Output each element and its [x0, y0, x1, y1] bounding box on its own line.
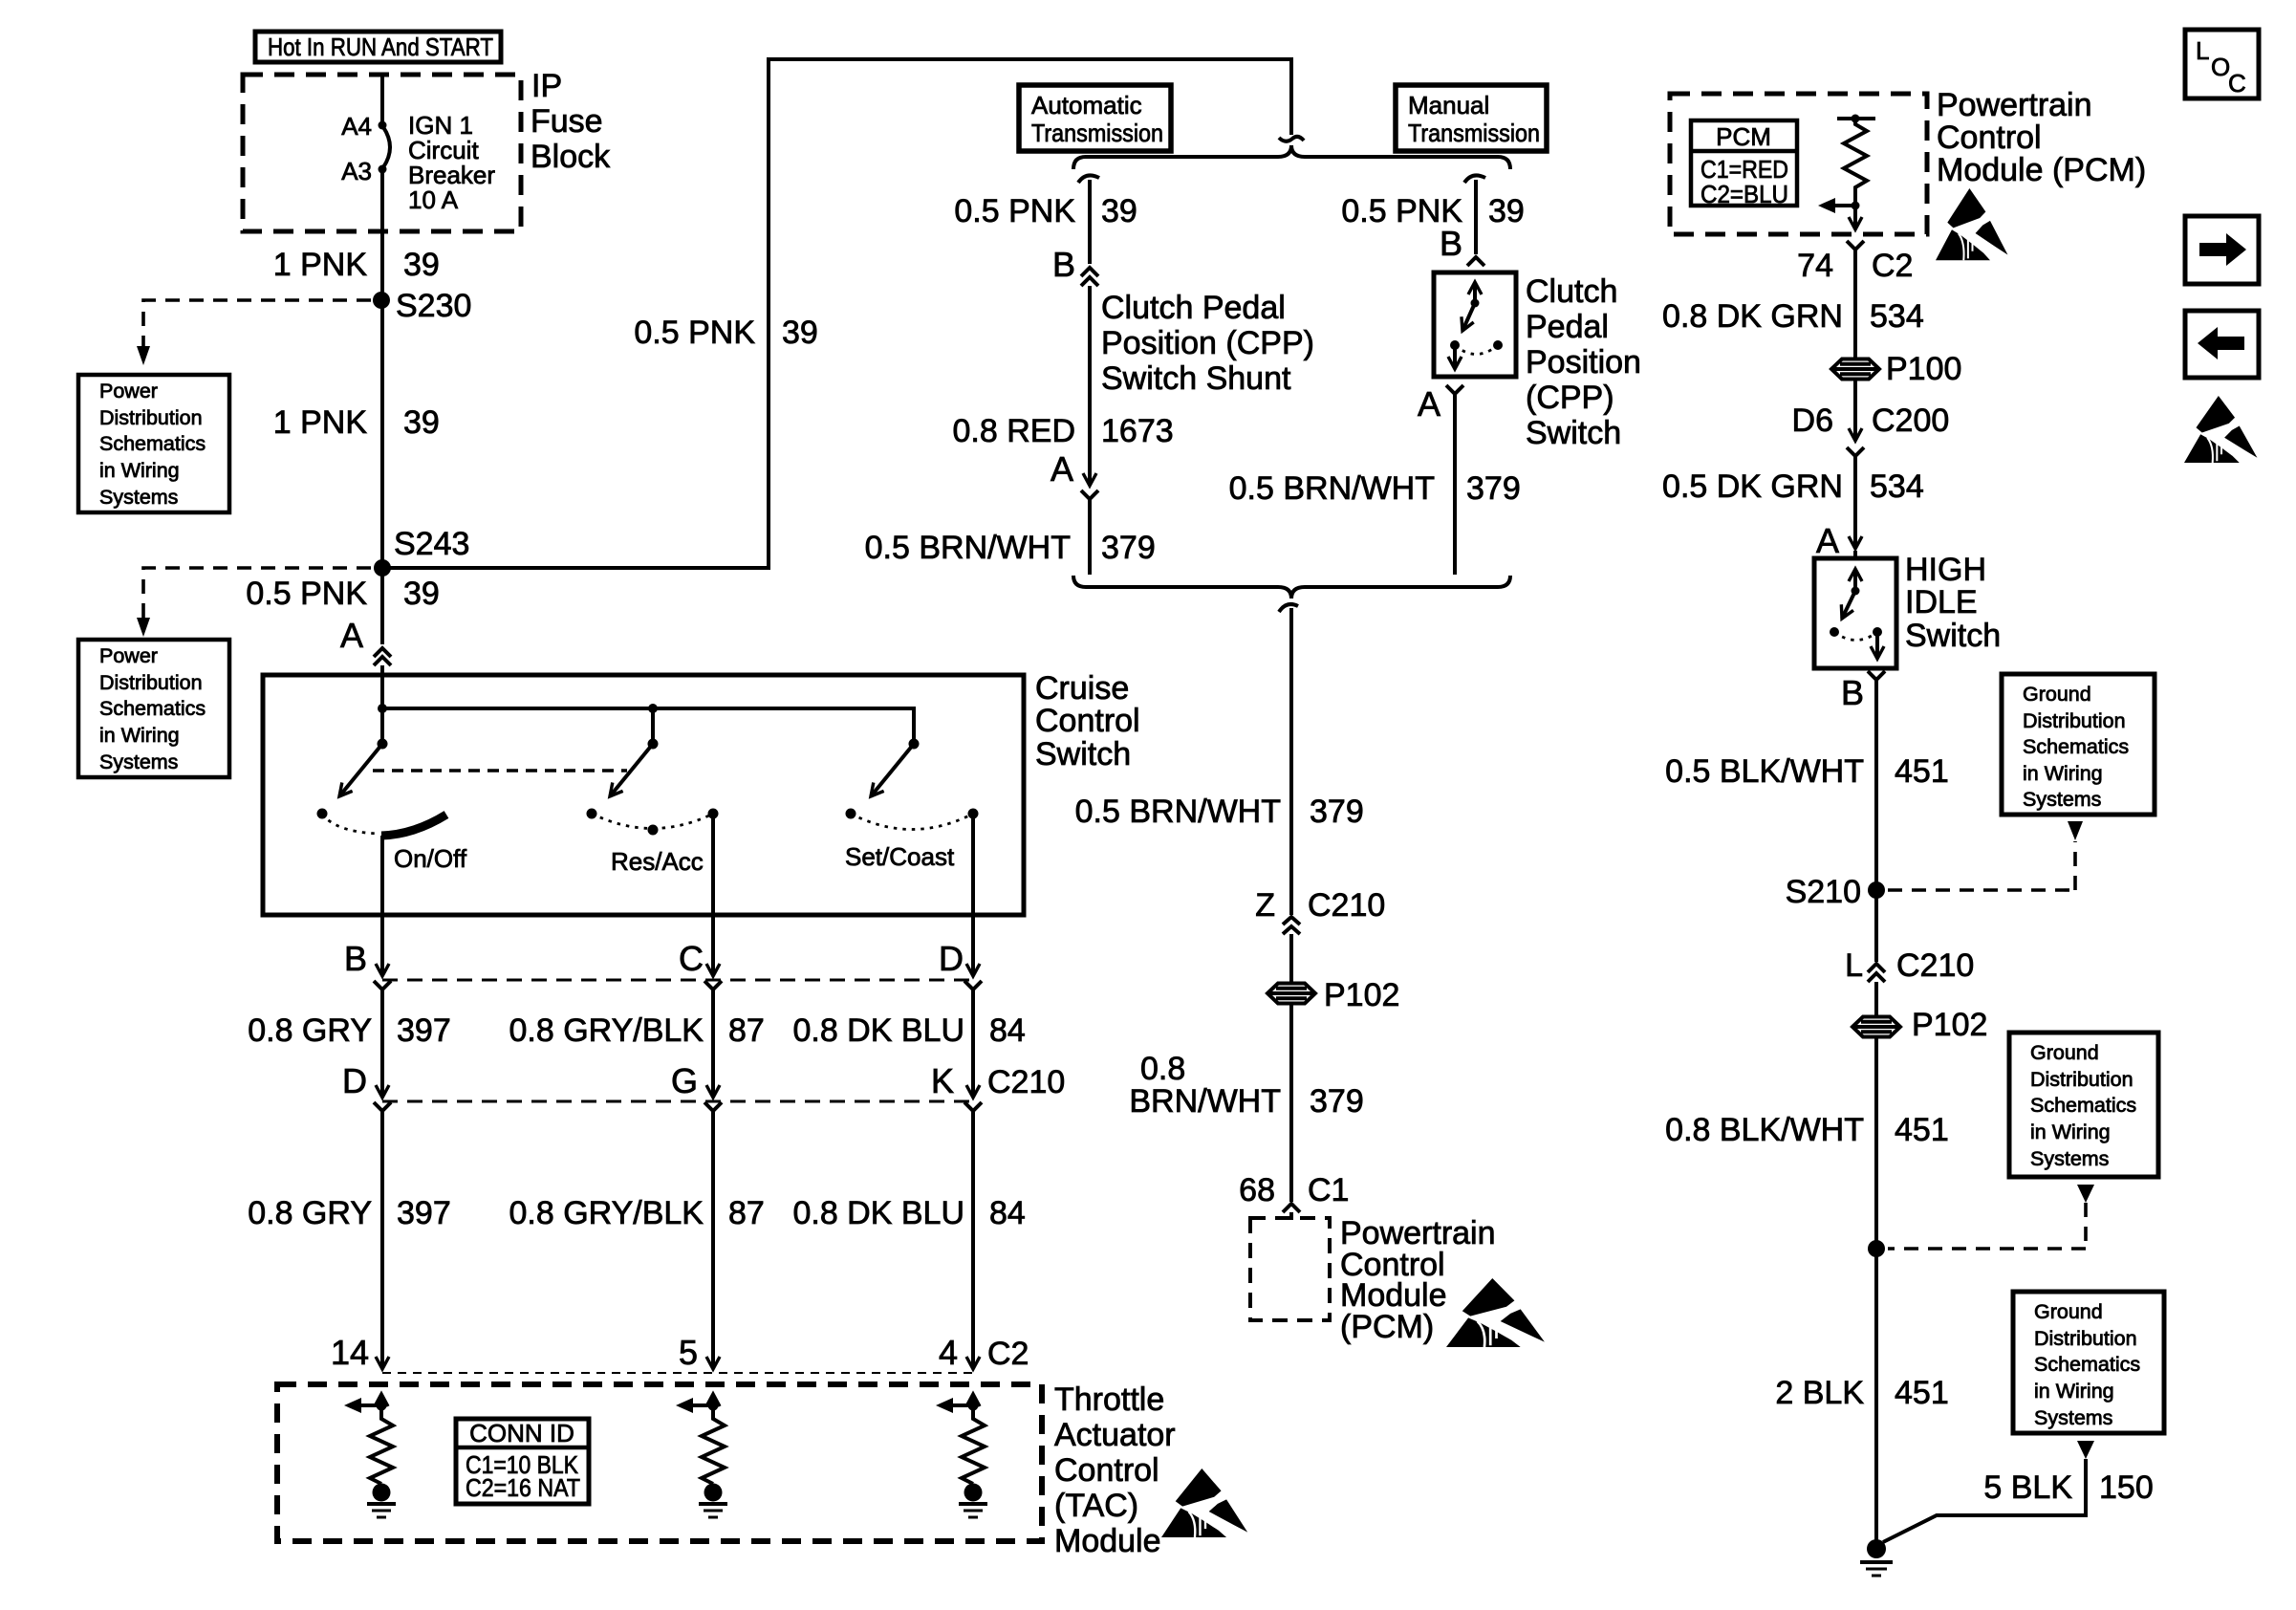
svg-text:Position (CPP): Position (CPP)	[1101, 325, 1314, 361]
svg-text:L: L	[1845, 947, 1863, 984]
svg-text:Distribution: Distribution	[99, 671, 203, 694]
svg-text:Transmission: Transmission	[1031, 119, 1163, 147]
svg-text:B: B	[1440, 224, 1462, 263]
svg-text:in Wiring: in Wiring	[99, 459, 180, 482]
svg-text:Schematics: Schematics	[2030, 1094, 2136, 1117]
svg-text:0.5 DK GRN: 0.5 DK GRN	[1662, 468, 1843, 505]
svg-text:K: K	[931, 1061, 954, 1100]
svg-text:(TAC): (TAC)	[1054, 1488, 1138, 1524]
svg-text:B: B	[1052, 245, 1075, 284]
svg-text:74: 74	[1797, 248, 1833, 284]
svg-text:1673: 1673	[1101, 413, 1174, 449]
svg-text:0.8 GRY/BLK: 0.8 GRY/BLK	[509, 1195, 704, 1231]
svg-text:S210: S210	[1786, 874, 1861, 910]
svg-text:Distribution: Distribution	[99, 406, 203, 429]
svg-text:Res/Acc: Res/Acc	[611, 847, 704, 876]
svg-text:in Wiring: in Wiring	[2023, 762, 2103, 785]
svg-text:5: 5	[679, 1333, 698, 1372]
svg-text:in Wiring: in Wiring	[2030, 1120, 2111, 1143]
svg-text:Cruise: Cruise	[1035, 670, 1129, 707]
svg-text:Distribution: Distribution	[2034, 1327, 2137, 1350]
svg-text:Control: Control	[1054, 1452, 1159, 1489]
svg-text:Schematics: Schematics	[99, 432, 206, 455]
svg-text:Block: Block	[531, 139, 611, 175]
svg-text:B: B	[344, 939, 367, 978]
svg-text:D: D	[342, 1061, 367, 1100]
svg-text:Fuse: Fuse	[531, 103, 603, 140]
svg-text:379: 379	[1101, 530, 1156, 566]
svg-text:Z: Z	[1255, 887, 1275, 924]
svg-text:Control: Control	[1035, 703, 1140, 739]
svg-text:BRN/WHT: BRN/WHT	[1129, 1083, 1281, 1120]
svg-text:0.5 BRN/WHT: 0.5 BRN/WHT	[865, 530, 1071, 566]
svg-text:A: A	[1418, 384, 1440, 424]
svg-text:84: 84	[989, 1012, 1026, 1049]
svg-text:in Wiring: in Wiring	[2034, 1380, 2114, 1403]
svg-text:L: L	[2196, 36, 2209, 65]
svg-text:P102: P102	[1324, 977, 1399, 1013]
svg-text:Automatic: Automatic	[1031, 91, 1142, 120]
svg-text:4: 4	[939, 1333, 958, 1372]
svg-text:39: 39	[403, 247, 440, 283]
svg-text:(PCM): (PCM)	[1340, 1309, 1434, 1345]
svg-text:Ground: Ground	[2023, 683, 2091, 706]
svg-text:Set/Coast: Set/Coast	[845, 842, 955, 871]
svg-text:C2=BLU: C2=BLU	[1700, 180, 1788, 208]
svg-text:Switch: Switch	[1905, 618, 2001, 654]
svg-text:39: 39	[1101, 193, 1137, 229]
svg-text:IDLE: IDLE	[1905, 584, 1978, 620]
svg-text:A: A	[340, 616, 363, 655]
svg-text:0.8 RED: 0.8 RED	[953, 413, 1076, 449]
svg-text:Module: Module	[1054, 1523, 1161, 1559]
svg-text:C1: C1	[1308, 1172, 1349, 1208]
svg-text:0.5 BLK/WHT: 0.5 BLK/WHT	[1665, 753, 1864, 790]
svg-text:Hot In RUN And START: Hot In RUN And START	[268, 33, 493, 61]
svg-text:68: 68	[1239, 1172, 1275, 1208]
svg-text:Transmission: Transmission	[1408, 119, 1540, 147]
svg-text:150: 150	[2099, 1469, 2154, 1506]
svg-text:10 A: 10 A	[408, 185, 459, 214]
svg-text:PCM: PCM	[1716, 122, 1771, 151]
svg-text:C210: C210	[1308, 887, 1385, 924]
svg-text:5 BLK: 5 BLK	[1983, 1469, 2072, 1506]
svg-text:Pedal: Pedal	[1526, 309, 1609, 345]
svg-text:534: 534	[1870, 298, 1924, 335]
svg-text:(CPP): (CPP)	[1526, 380, 1614, 416]
svg-text:P102: P102	[1912, 1007, 1987, 1043]
svg-text:39: 39	[782, 315, 818, 351]
svg-text:0.8 GRY: 0.8 GRY	[248, 1195, 372, 1231]
svg-text:0.5 PNK: 0.5 PNK	[246, 576, 367, 612]
svg-text:CONN ID: CONN ID	[469, 1419, 574, 1447]
svg-text:Switch Shunt: Switch Shunt	[1101, 360, 1291, 397]
svg-text:Switch: Switch	[1526, 415, 1621, 451]
svg-text:IP: IP	[531, 68, 562, 104]
svg-text:S243: S243	[394, 526, 469, 562]
svg-text:D: D	[939, 939, 964, 978]
svg-text:Ground: Ground	[2034, 1300, 2103, 1323]
svg-text:Schematics: Schematics	[99, 697, 206, 720]
svg-text:A4: A4	[341, 112, 372, 141]
svg-text:0.5 BRN/WHT: 0.5 BRN/WHT	[1229, 470, 1435, 507]
svg-text:Clutch: Clutch	[1526, 273, 1617, 310]
svg-text:C2: C2	[987, 1336, 1029, 1372]
svg-text:A: A	[1051, 449, 1073, 489]
svg-text:0.5 BRN/WHT: 0.5 BRN/WHT	[1075, 794, 1281, 830]
svg-text:Manual: Manual	[1408, 91, 1489, 120]
svg-text:1 PNK: 1 PNK	[273, 404, 368, 441]
svg-text:Power: Power	[99, 380, 158, 402]
svg-text:Switch: Switch	[1035, 736, 1131, 772]
svg-text:Distribution: Distribution	[2030, 1068, 2134, 1091]
svg-text:379: 379	[1310, 794, 1364, 830]
svg-text:C2: C2	[1872, 248, 1913, 284]
svg-text:S230: S230	[396, 288, 471, 324]
svg-text:39: 39	[1488, 193, 1525, 229]
svg-text:451: 451	[1895, 1112, 1949, 1148]
svg-text:2 BLK: 2 BLK	[1775, 1375, 1864, 1411]
svg-text:C2=16 NAT: C2=16 NAT	[466, 1473, 580, 1502]
svg-text:0.5 PNK: 0.5 PNK	[954, 193, 1075, 229]
svg-text:0.8 BLK/WHT: 0.8 BLK/WHT	[1665, 1112, 1864, 1148]
svg-text:87: 87	[728, 1195, 765, 1231]
svg-text:1 PNK: 1 PNK	[273, 247, 368, 283]
svg-text:Systems: Systems	[99, 486, 178, 509]
svg-text:Systems: Systems	[2034, 1406, 2112, 1429]
svg-text:Module (PCM): Module (PCM)	[1937, 152, 2146, 188]
svg-text:in Wiring: in Wiring	[99, 724, 180, 747]
svg-text:0.8 GRY: 0.8 GRY	[248, 1012, 372, 1049]
svg-text:Ground: Ground	[2030, 1041, 2099, 1064]
svg-text:A: A	[1816, 521, 1839, 560]
svg-text:379: 379	[1310, 1083, 1364, 1120]
svg-text:0.8 DK BLU: 0.8 DK BLU	[792, 1012, 964, 1049]
svg-text:0.8 DK GRN: 0.8 DK GRN	[1662, 298, 1843, 335]
svg-text:Schematics: Schematics	[2023, 735, 2129, 758]
svg-text:0.5 PNK: 0.5 PNK	[634, 315, 755, 351]
svg-text:P100: P100	[1886, 351, 1961, 387]
svg-text:0.8 GRY/BLK: 0.8 GRY/BLK	[509, 1012, 704, 1049]
svg-text:534: 534	[1870, 468, 1924, 505]
svg-text:Schematics: Schematics	[2034, 1353, 2140, 1376]
svg-text:Throttle: Throttle	[1054, 1382, 1164, 1418]
svg-text:14: 14	[331, 1333, 369, 1372]
svg-text:Systems: Systems	[2023, 788, 2101, 811]
svg-text:Systems: Systems	[99, 751, 178, 773]
svg-text:451: 451	[1895, 753, 1949, 790]
svg-text:D6: D6	[1792, 402, 1833, 439]
svg-text:Actuator: Actuator	[1054, 1417, 1176, 1453]
svg-text:C: C	[679, 939, 704, 978]
svg-text:Systems: Systems	[2030, 1147, 2109, 1170]
svg-text:0.8: 0.8	[1140, 1051, 1185, 1087]
svg-text:0.8 DK BLU: 0.8 DK BLU	[792, 1195, 964, 1231]
svg-text:C210: C210	[987, 1064, 1065, 1100]
svg-text:C210: C210	[1896, 947, 1974, 984]
svg-text:87: 87	[728, 1012, 765, 1049]
svg-text:Clutch Pedal: Clutch Pedal	[1101, 290, 1286, 326]
svg-text:Distribution: Distribution	[2023, 709, 2126, 732]
svg-text:A3: A3	[341, 157, 372, 185]
svg-text:397: 397	[397, 1195, 451, 1231]
svg-text:84: 84	[989, 1195, 1026, 1231]
svg-text:397: 397	[397, 1012, 451, 1049]
svg-text:C200: C200	[1872, 402, 1949, 439]
svg-text:C: C	[2228, 69, 2246, 98]
svg-text:G: G	[671, 1061, 698, 1100]
svg-text:451: 451	[1895, 1375, 1949, 1411]
svg-text:Position: Position	[1526, 344, 1641, 381]
svg-text:39: 39	[403, 404, 440, 441]
svg-text:HIGH: HIGH	[1905, 552, 1986, 588]
svg-text:Control: Control	[1937, 120, 2042, 156]
svg-text:B: B	[1841, 673, 1864, 712]
svg-text:Power: Power	[99, 644, 158, 667]
svg-text:379: 379	[1466, 470, 1521, 507]
svg-text:39: 39	[403, 576, 440, 612]
svg-text:Powertrain: Powertrain	[1937, 87, 2092, 123]
svg-text:On/Off: On/Off	[394, 844, 467, 873]
